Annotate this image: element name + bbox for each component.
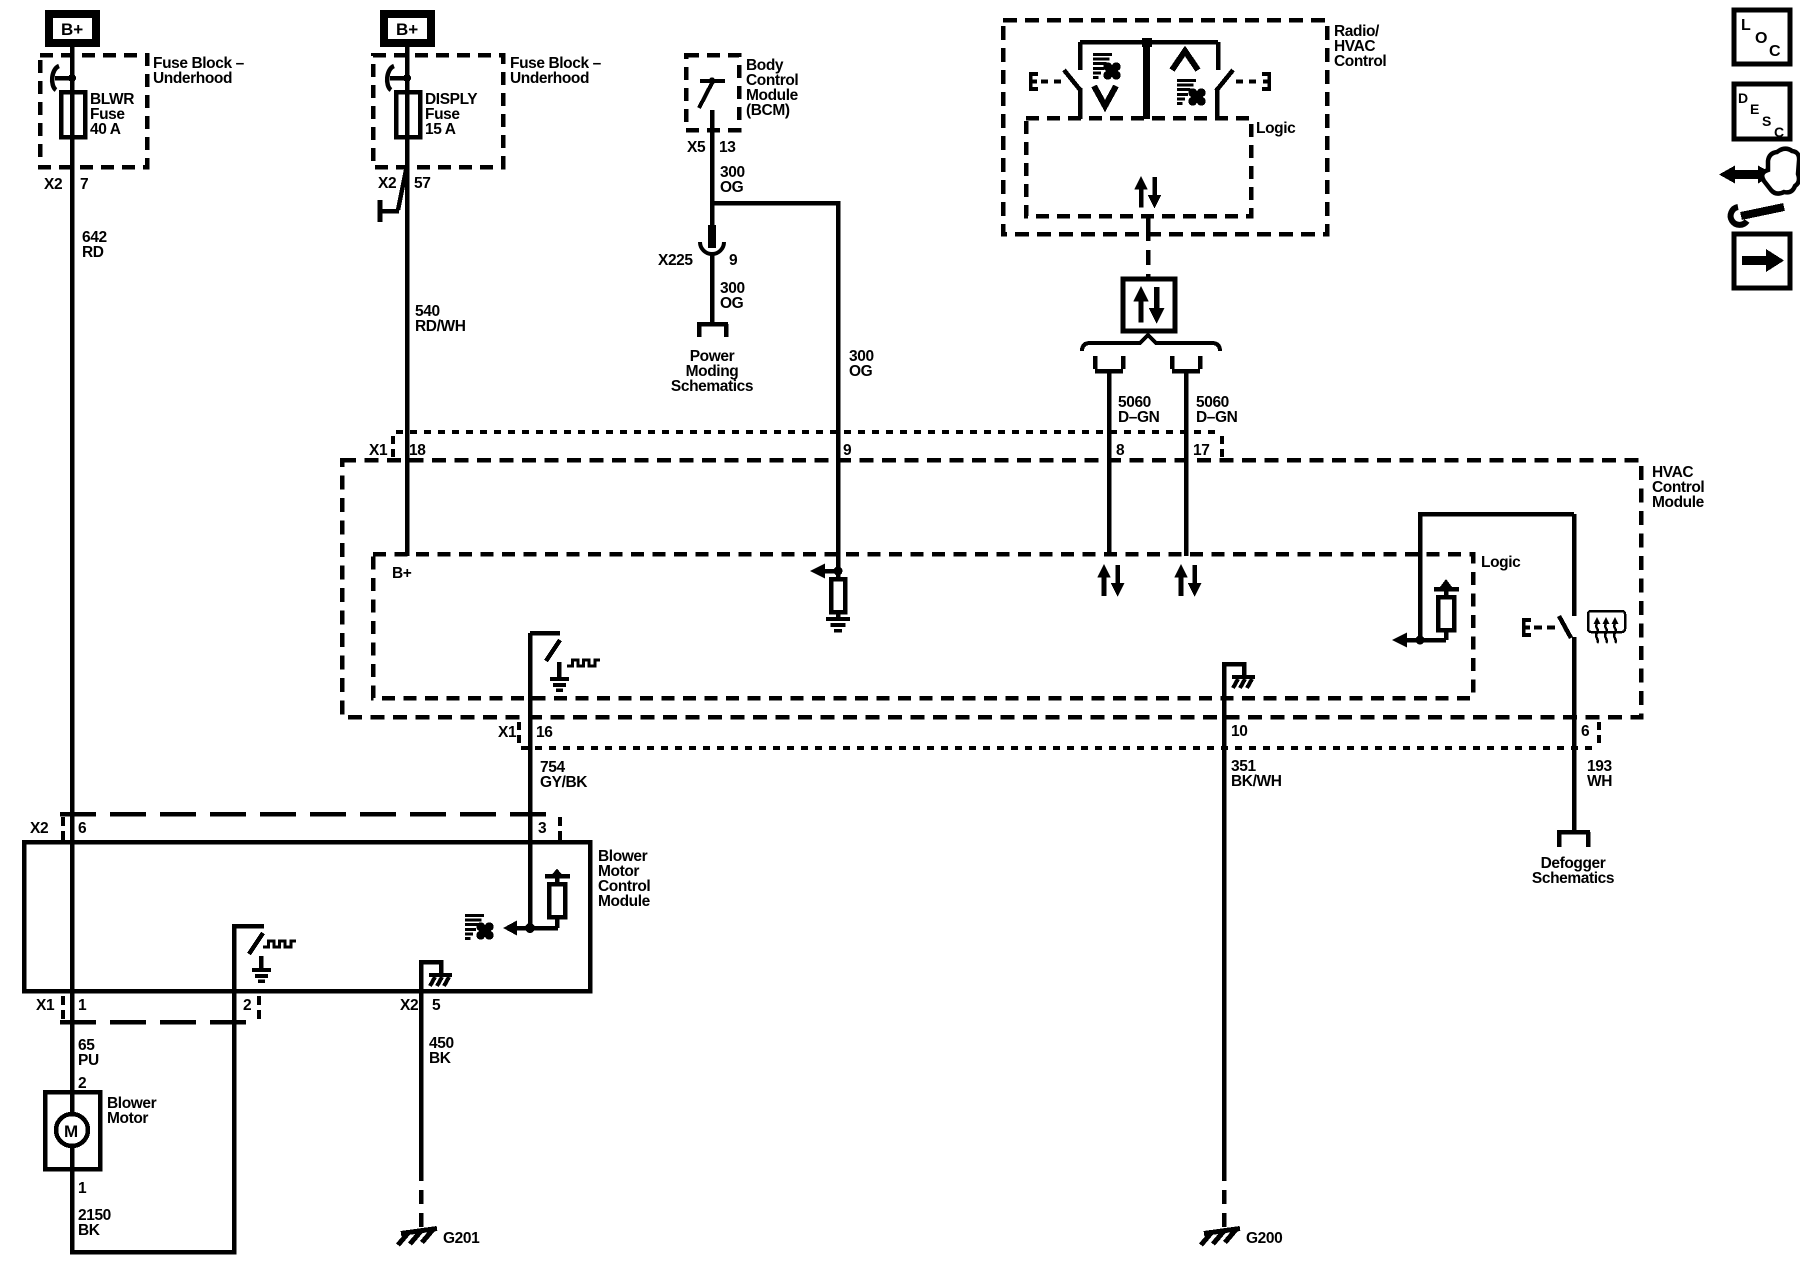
- svg-text:Underhood: Underhood: [153, 70, 232, 87]
- svg-text:18: 18: [409, 442, 426, 459]
- svg-text:X5: X5: [687, 139, 706, 156]
- svg-text:Schematics: Schematics: [671, 378, 753, 395]
- svg-text:1: 1: [78, 1180, 87, 1197]
- svg-text:C: C: [1774, 124, 1784, 140]
- svg-text:X1: X1: [369, 442, 388, 459]
- svg-text:D–GN: D–GN: [1118, 409, 1160, 426]
- svg-text:(BCM): (BCM): [746, 102, 790, 119]
- svg-text:57: 57: [414, 175, 430, 192]
- svg-text:OG: OG: [720, 179, 744, 196]
- svg-text:15 A: 15 A: [425, 121, 456, 138]
- svg-text:B+: B+: [392, 565, 412, 582]
- svg-text:B+: B+: [61, 20, 83, 39]
- svg-text:WH: WH: [1587, 773, 1612, 790]
- svg-text:X2: X2: [400, 997, 418, 1014]
- svg-text:PU: PU: [78, 1052, 99, 1069]
- svg-text:D: D: [1738, 90, 1748, 106]
- svg-text:S: S: [1762, 113, 1771, 129]
- svg-text:Control: Control: [1334, 53, 1386, 70]
- svg-text:10: 10: [1231, 723, 1247, 740]
- svg-text:X225: X225: [658, 252, 693, 269]
- svg-text:X2: X2: [378, 175, 396, 192]
- svg-text:5: 5: [432, 997, 441, 1014]
- svg-text:D–GN: D–GN: [1196, 409, 1238, 426]
- svg-text:3: 3: [538, 820, 547, 837]
- svg-text:7: 7: [80, 176, 88, 193]
- svg-text:E: E: [1750, 101, 1759, 117]
- svg-text:Logic: Logic: [1256, 120, 1296, 137]
- svg-text:Module: Module: [1652, 494, 1705, 511]
- svg-text:1: 1: [78, 997, 87, 1014]
- svg-text:8: 8: [1116, 442, 1125, 459]
- svg-text:Module: Module: [598, 893, 651, 910]
- svg-text:C: C: [1769, 43, 1781, 60]
- svg-text:6: 6: [78, 820, 87, 837]
- svg-text:L: L: [1741, 17, 1751, 34]
- svg-text:6: 6: [1581, 723, 1590, 740]
- svg-text:M: M: [64, 1122, 78, 1141]
- svg-text:9: 9: [729, 252, 738, 269]
- svg-text:40 A: 40 A: [90, 121, 121, 138]
- svg-text:Underhood: Underhood: [510, 70, 589, 87]
- svg-text:2: 2: [243, 997, 251, 1014]
- svg-text:RD/WH: RD/WH: [415, 318, 466, 335]
- svg-text:9: 9: [843, 442, 852, 459]
- svg-text:X2: X2: [44, 176, 62, 193]
- svg-text:O: O: [1755, 30, 1767, 47]
- svg-text:OG: OG: [720, 295, 744, 312]
- svg-text:Schematics: Schematics: [1532, 870, 1614, 887]
- svg-text:17: 17: [1193, 442, 1209, 459]
- svg-text:G201: G201: [443, 1230, 480, 1247]
- svg-text:X1: X1: [498, 724, 517, 741]
- svg-text:BK: BK: [429, 1050, 452, 1067]
- svg-text:G200: G200: [1246, 1230, 1282, 1247]
- svg-text:13: 13: [719, 139, 736, 156]
- svg-text:Motor: Motor: [107, 1110, 148, 1127]
- svg-text:16: 16: [536, 724, 553, 741]
- svg-text:X2: X2: [30, 820, 48, 837]
- svg-text:X1: X1: [36, 997, 55, 1014]
- svg-text:BK/WH: BK/WH: [1231, 773, 1282, 790]
- svg-text:BK: BK: [78, 1222, 101, 1239]
- svg-text:GY/BK: GY/BK: [540, 774, 588, 791]
- svg-text:Logic: Logic: [1481, 554, 1521, 571]
- svg-text:2: 2: [78, 1075, 86, 1092]
- svg-text:OG: OG: [849, 363, 873, 380]
- svg-text:RD: RD: [82, 244, 104, 261]
- svg-text:B+: B+: [396, 20, 418, 39]
